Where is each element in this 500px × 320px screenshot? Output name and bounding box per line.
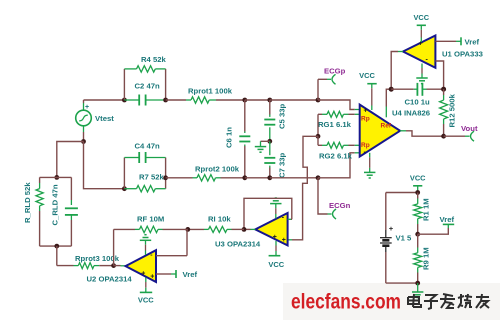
capacitor C6 [225, 100, 251, 178]
VCC divider [410, 174, 426, 193]
svg-text:R4 52k: R4 52k [141, 55, 167, 64]
wire Rprot1 to node C [216, 99, 245, 101]
node Q junction RG midpoint [316, 134, 321, 139]
VCC U2 [138, 278, 154, 305]
pin lead INplus [355, 109, 360, 111]
svg-text:RI 10k: RI 10k [208, 215, 231, 224]
svg-text:VCC: VCC [410, 174, 426, 183]
wire node P to INminus wrap [318, 153, 355, 178]
wire node G to left rail [57, 142, 84, 178]
wire divider bottom rail [386, 282, 418, 284]
svg-text:+: + [273, 234, 277, 241]
svg-text:U1 OPA333: U1 OPA333 [442, 50, 483, 59]
capacitor C7 [264, 141, 286, 178]
node B junction [163, 98, 168, 103]
op-amp U4 INA826 [360, 105, 430, 157]
svg-text:Rp: Rp [361, 142, 370, 149]
terminal Vref U1 [461, 37, 479, 46]
svg-text:+: + [150, 273, 154, 280]
wire node G down to C4R7 block [84, 142, 125, 189]
node F junction mid cap [267, 139, 272, 144]
node S junction [441, 87, 446, 92]
svg-text:Rprot2 100k: Rprot2 100k [195, 165, 240, 174]
capacitor C2 [124, 82, 165, 106]
svg-text:RF 10M: RF 10M [137, 215, 164, 224]
wire U3 output [244, 228, 255, 230]
VCC U4 [359, 71, 377, 110]
svg-text:Vref: Vref [183, 270, 198, 279]
node E junction ECGp tap [316, 98, 321, 103]
node K junction [122, 186, 127, 191]
svg-text:+: + [364, 108, 368, 115]
svg-text:U3 OPA2314: U3 OPA2314 [215, 240, 261, 249]
resistor R7 [124, 173, 165, 192]
wire node D to node E [270, 99, 318, 101]
wire node C to node D [245, 99, 270, 101]
wire RG bus upper [317, 114, 319, 136]
svg-text:+: + [141, 270, 145, 277]
wire U1 output [391, 52, 403, 90]
wire C4R7 block frame [124, 158, 165, 189]
svg-text:Vout: Vout [461, 124, 478, 133]
node C junction [242, 98, 247, 103]
wire RG midpoint to U3 input [288, 136, 318, 240]
capacitor C4 [124, 142, 165, 164]
svg-text:C6 1n: C6 1n [225, 127, 234, 148]
wire ECGp stub [318, 79, 331, 100]
wire U3 feedback [244, 198, 292, 229]
svg-text:C4 47n: C4 47n [135, 142, 161, 151]
capacitor C10 [391, 83, 443, 107]
ground mid [255, 141, 270, 152]
svg-text:R12 500k: R12 500k [448, 93, 457, 127]
svg-text:VCC: VCC [359, 71, 375, 80]
wire divider top rail [386, 192, 418, 194]
resistor Rprot1 [186, 87, 233, 104]
op-amp U2 OPA2314 [87, 250, 157, 283]
node H junction [54, 175, 59, 180]
svg-text:C7 33p: C7 33p [278, 152, 287, 178]
wire Vtest top to node A [84, 99, 125, 101]
node R junction [389, 87, 394, 92]
svg-text:ECGn: ECGn [329, 201, 351, 210]
svg-text:C2 47n: C2 47n [135, 82, 161, 91]
svg-text:+: + [282, 237, 286, 244]
svg-text:R9 1M: R9 1M [422, 247, 431, 270]
wire R4C2 block frame [124, 69, 165, 100]
svg-text:Vtest: Vtest [95, 114, 114, 123]
node V junction [185, 227, 190, 232]
terminal Vout [461, 124, 478, 141]
wire U2 feedback [156, 229, 187, 255]
wire node E to INplus wrap [318, 100, 355, 110]
svg-text:ECGp: ECGp [324, 67, 346, 76]
svg-text:V1 5: V1 5 [396, 234, 413, 243]
op-amp U1 OPA333 [403, 36, 483, 68]
resistor R1 [414, 193, 431, 235]
svg-text:elecfans.com: elecfans.com [291, 291, 401, 314]
node I junction [54, 244, 59, 249]
node L junction [163, 175, 168, 180]
node X junction Vref tap [415, 232, 420, 237]
node T junction [441, 134, 446, 139]
capacitor C_RLD [51, 177, 78, 246]
wire node M to node N [245, 177, 270, 179]
svg-text:C10 1u: C10 1u [405, 98, 431, 107]
wire U1 feedback [435, 61, 443, 89]
capacitor C5 [264, 100, 286, 141]
resistor R_RLD [23, 177, 43, 246]
VCC U1 [413, 13, 429, 42]
svg-text:VCC: VCC [413, 13, 429, 22]
wire U2 plus input [156, 273, 176, 275]
node D junction [267, 98, 272, 103]
svg-text:Ref: Ref [381, 123, 392, 130]
svg-text:C_RLD 47n: C_RLD 47n [51, 184, 60, 225]
wire RG bus lower [317, 136, 319, 145]
svg-text:U4 INA826: U4 INA826 [392, 109, 430, 118]
node J junction [111, 263, 116, 268]
svg-text:Vref: Vref [440, 215, 455, 224]
svg-text:VCC: VCC [268, 260, 284, 269]
resistor Rprot3 [57, 254, 120, 269]
terminal Vref U2 [176, 270, 197, 279]
svg-text:VCC: VCC [138, 296, 154, 305]
resistor RF [114, 215, 188, 233]
wire node N to node P [270, 177, 318, 179]
terminal ECGn [329, 201, 351, 219]
svg-text:Rp: Rp [361, 116, 370, 123]
node G junction [81, 139, 86, 144]
wire Vref tap [418, 225, 449, 235]
svg-text:RG1 6.1k: RG1 6.1k [318, 120, 352, 129]
node U junction [242, 227, 247, 232]
node N junction [267, 175, 272, 180]
terminal Vref divider [440, 215, 455, 224]
svg-text:+: + [389, 224, 394, 233]
VCC U3 [268, 241, 284, 269]
node P junction ECGn tap [316, 175, 321, 180]
wire node I down [56, 246, 58, 266]
wire U1 plus input to Vref [435, 40, 461, 42]
resistor R9 [414, 234, 431, 283]
resistor RI [188, 215, 244, 233]
svg-text:Rprot1 100k: Rprot1 100k [188, 87, 233, 96]
battery V1 [380, 193, 412, 284]
svg-text:U2 OPA2314: U2 OPA2314 [87, 275, 133, 284]
wire U4 ref pin [386, 89, 391, 117]
wire node L to Rprot2 [166, 177, 193, 179]
node A junction [122, 98, 127, 103]
svg-text:+: + [419, 40, 423, 47]
terminal ECGp [324, 67, 346, 85]
svg-text:C5 33p: C5 33p [278, 103, 287, 129]
wire RF left down [113, 229, 115, 265]
wire Vtest bottom [83, 132, 85, 142]
ground divider [412, 283, 423, 298]
ground U4 [364, 153, 375, 178]
svg-text:Vref: Vref [465, 37, 480, 46]
wire RLD bottom node [40, 245, 72, 247]
svg-text:R_RLD 52k: R_RLD 52k [23, 182, 32, 223]
wire U4 output to Vout [400, 131, 444, 136]
wire node B to Rprot1 [166, 99, 186, 101]
node Y junction [415, 281, 420, 286]
resistor Rprot2 [193, 165, 240, 182]
wire node T to Vout terminal [444, 135, 470, 137]
svg-text:+: + [85, 104, 89, 111]
resistor R12 [440, 89, 457, 136]
resistor RG1 [318, 111, 360, 129]
node W junction [415, 190, 420, 195]
svg-text:RG2 6.1k: RG2 6.1k [319, 152, 353, 161]
pin lead INminus [355, 152, 360, 154]
wire Rprot3 to node J [99, 265, 113, 267]
wire Rprot2 to node M [221, 177, 245, 179]
watermark chinese characters 电子发烧友 [408, 294, 421, 307]
resistor R4 [124, 55, 166, 72]
wire RLD top node [40, 176, 72, 178]
node M junction [242, 175, 247, 180]
ground U1 [416, 64, 427, 84]
resistor RG2 [318, 142, 360, 160]
ground U2 [140, 235, 151, 255]
wire ECGn stub [318, 178, 332, 214]
voltage source Vtest [76, 100, 115, 132]
svg-text:R1 1M: R1 1M [422, 198, 431, 221]
pin lead U2 out [114, 265, 126, 267]
op-amp U3 OPA2314 [215, 213, 288, 249]
svg-text:R7 52k: R7 52k [139, 173, 165, 182]
ground U3 [270, 198, 281, 219]
